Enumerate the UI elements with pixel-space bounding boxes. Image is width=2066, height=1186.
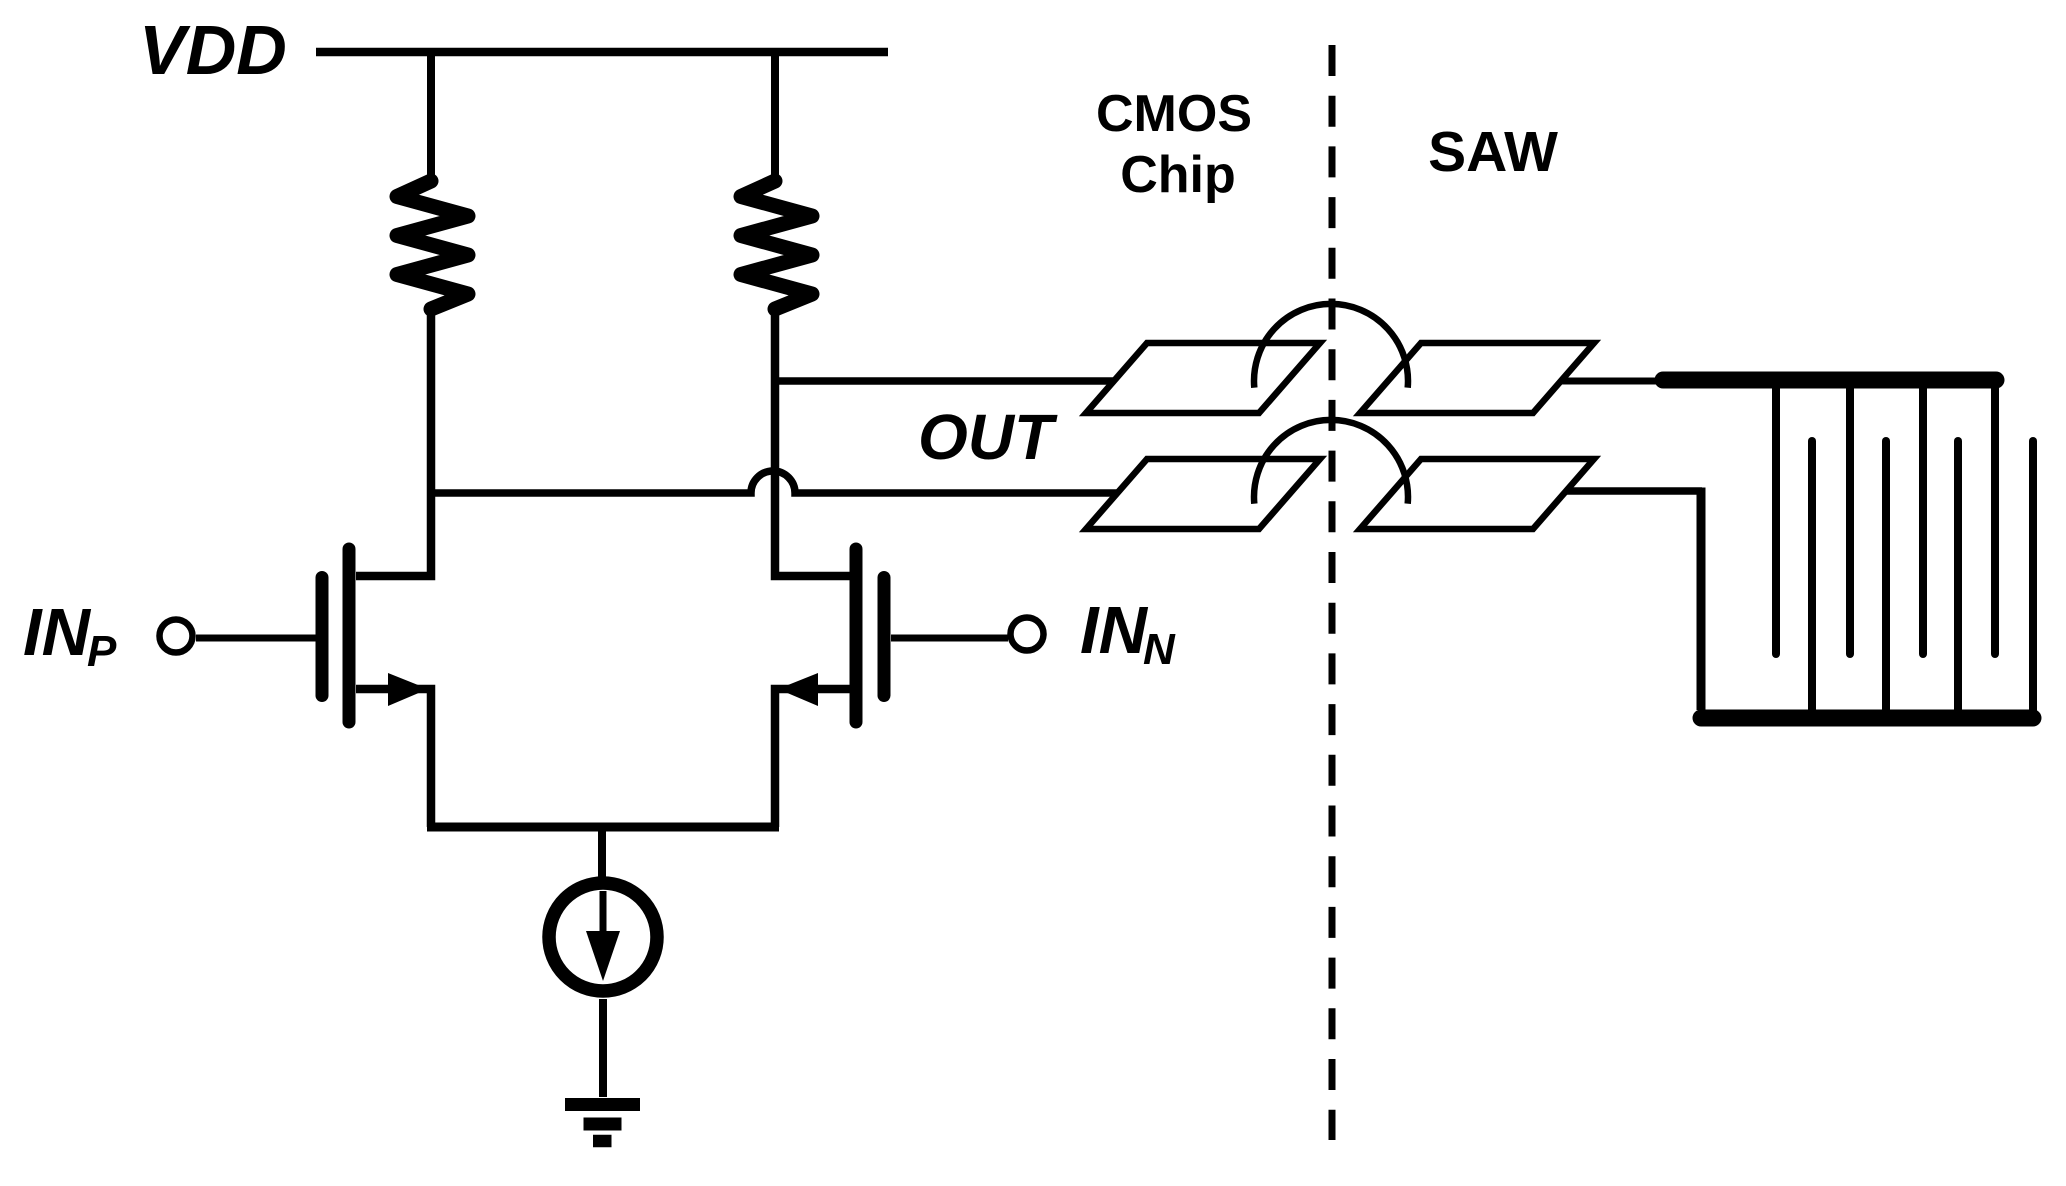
- pad bottom-right (SAW pad 2): [1360, 459, 1594, 529]
- transistor M1 source arrow: [388, 673, 428, 706]
- wire top OUT wire from M2 drain to pad: [775, 377, 1114, 385]
- current source I1 circle: [549, 883, 657, 991]
- pad bottom-left (CMOS output pad 2): [1086, 459, 1320, 529]
- svg-text:N: N: [1143, 625, 1176, 674]
- IDT top finger 1: [1772, 385, 1780, 654]
- wire left branch from VDD to resistor R1: [427, 48, 435, 181]
- IDT top finger 4: [1991, 385, 1999, 654]
- svg-text:P: P: [87, 627, 117, 676]
- bond wire bottom: [1254, 420, 1408, 504]
- wire SAW pad 2 to IDT bottom bus: [1566, 487, 1702, 495]
- svg-text:OUT: OUT: [918, 401, 1058, 473]
- transistor M1 gate bar: [316, 578, 329, 696]
- wire M2 gate lead: [891, 635, 1008, 642]
- wire SAW pad 1 to IDT top bus: [1561, 378, 1670, 385]
- transistor M2 channel bar: [850, 549, 863, 722]
- wire right branch from VDD to resistor R2: [771, 48, 779, 181]
- wire tail stub to current source: [598, 827, 606, 878]
- wire IDT bottom bus left riser: [1697, 488, 1706, 711]
- svg-text:CMOS: CMOS: [1096, 85, 1252, 143]
- IDT bottom finger 4 (right edge): [2029, 441, 2037, 714]
- svg-text:SAW: SAW: [1428, 120, 1558, 184]
- current source I1 arrow head: [586, 931, 620, 981]
- IDT bottom finger 2: [1882, 441, 1890, 714]
- bond wire top: [1254, 304, 1408, 388]
- terminal INP circle: [160, 620, 193, 653]
- svg-text:IN: IN: [23, 595, 92, 670]
- pad top-left (CMOS output pad 1): [1086, 343, 1320, 413]
- resistor R1 (left load): [397, 181, 468, 309]
- wire left drain vertical and drain lead of M1: [356, 309, 431, 576]
- svg-text:IN: IN: [1080, 593, 1149, 668]
- transistor M1 channel bar: [343, 549, 356, 722]
- wire tail rail joining sources: [427, 823, 779, 832]
- svg-text:VDD: VDD: [139, 11, 287, 89]
- wire VDD rail: [316, 48, 888, 57]
- wire M2 source lead and down to tail: [775, 689, 850, 827]
- wire current source to ground: [599, 999, 607, 1097]
- transistor M2 source arrow: [778, 673, 818, 706]
- IDT top bus bar: [1663, 372, 1996, 389]
- IDT top finger 3: [1919, 385, 1927, 654]
- IDT bottom finger 1: [1808, 441, 1816, 714]
- current source I1 arrow shaft: [600, 891, 607, 938]
- ground symbol: [565, 1105, 640, 1142]
- IDT bottom finger 3: [1954, 441, 1962, 714]
- terminal INN circle: [1011, 618, 1044, 651]
- transistor M2 gate bar: [878, 578, 891, 696]
- pad top-right (SAW pad 1): [1360, 343, 1594, 413]
- resistor R2 (right load): [741, 181, 812, 309]
- IDT bottom bus bar: [1701, 710, 2033, 727]
- wire M1 gate lead: [196, 635, 316, 642]
- wire right drain vertical and drain lead of M2: [775, 309, 850, 576]
- wire M1 source lead and down to tail: [356, 689, 431, 827]
- chip boundary dashed line: [1329, 45, 1336, 1140]
- IDT top finger 2: [1846, 385, 1854, 654]
- svg-text:Chip: Chip: [1120, 146, 1236, 204]
- wire lower OUT wire from M1 drain with hop over right branch: [431, 471, 1117, 493]
